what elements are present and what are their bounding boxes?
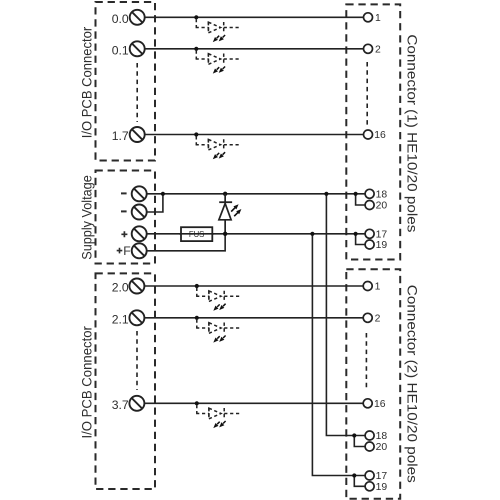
minus rail wire	[147, 193, 366, 195]
Connector (1) box (top right)	[346, 4, 400, 259]
I/O PCB Connector box (bottom left)	[96, 273, 156, 489]
I/O PCB Connector box (top left)	[96, 2, 156, 161]
vertical wire minus rail to connector 2 pin 18	[326, 194, 365, 436]
label plus F	[117, 248, 123, 254]
svg-text:I/O PCB Connector: I/O PCB Connector	[80, 326, 95, 439]
continuation dashes left box A	[136, 63, 138, 122]
plus rail wire	[147, 233, 366, 235]
svg-text:3.7: 3.7	[112, 398, 129, 412]
svg-text:2.0: 2.0	[112, 281, 129, 295]
svg-text:19: 19	[376, 482, 388, 493]
connector 2 pin 16	[363, 399, 372, 408]
connector 1 pin 16	[364, 130, 373, 139]
svg-text:2: 2	[375, 314, 381, 325]
svg-text:16: 16	[374, 130, 386, 141]
wire 1.7 to pin 16	[145, 134, 364, 136]
svg-text:20: 20	[376, 201, 388, 212]
continuation dashes right box 1	[366, 62, 368, 127]
junction on minus rail	[324, 192, 328, 196]
wire 2.1 to c2 pin 2	[145, 317, 364, 319]
connector 1 pin 19	[365, 240, 374, 249]
junction on plus rail	[310, 232, 314, 236]
terminal 2.1	[129, 310, 144, 325]
LED indicator for 2.0	[195, 284, 242, 311]
continuation dashes left box C	[136, 331, 138, 390]
label minus 1	[121, 192, 127, 194]
svg-text:2: 2	[375, 45, 381, 56]
junction minus link	[161, 192, 165, 196]
connector 1 pin 18	[365, 189, 374, 198]
svg-text:I/O PCB Connector: I/O PCB Connector	[80, 26, 95, 138]
fuse FUS	[179, 227, 214, 241]
connector 1 pin 20 elbow wire	[356, 194, 366, 205]
svg-text:19: 19	[376, 240, 388, 251]
svg-text:1: 1	[375, 282, 381, 293]
wire 0.1 to pin 2	[145, 48, 364, 50]
junction pin 17	[354, 232, 358, 236]
LED indicator for 0.0	[194, 15, 241, 42]
connector 2 pin 18	[365, 431, 374, 440]
svg-text:1.7: 1.7	[112, 129, 129, 143]
connector 1 pin 19 elbow wire	[356, 234, 366, 245]
svg-text:17: 17	[376, 230, 388, 241]
terminal minus 1	[132, 186, 147, 201]
svg-text:2.1: 2.1	[112, 312, 129, 326]
Supply Voltage box	[96, 171, 156, 264]
vertical wire plus rail to connector 2 pin 17	[312, 234, 365, 476]
minus 2 stub wire	[147, 194, 163, 212]
svg-text:16: 16	[374, 399, 386, 410]
svg-text:Connector (2) HE10/20 poles: Connector (2) HE10/20 poles	[404, 285, 420, 483]
LED indicator for 3.7	[195, 401, 242, 428]
plus F wire	[147, 234, 226, 251]
svg-text:Supply Voltage: Supply Voltage	[80, 175, 95, 260]
connector 1 pin 20	[365, 201, 374, 210]
continuation dashes right box 2	[365, 333, 367, 391]
wire 3.7 to c2 pin 16	[145, 402, 364, 404]
LED D1 (supply indicator)	[219, 192, 242, 236]
svg-text:Connector (1) HE10/20 poles: Connector (1) HE10/20 poles	[404, 34, 420, 232]
connector 2 pin 1	[363, 282, 372, 291]
connector 2 pin 17	[365, 471, 374, 480]
connector 1 pin 17	[365, 229, 374, 238]
connector 2 pin 20	[365, 442, 374, 451]
svg-text:20: 20	[376, 442, 388, 453]
terminal 3.7	[129, 396, 144, 411]
junction c2 pin 18	[352, 433, 356, 437]
label plus	[121, 231, 127, 237]
terminal 1.7	[130, 127, 145, 142]
svg-text:F: F	[123, 244, 130, 258]
svg-text:18: 18	[376, 190, 388, 201]
connector 2 pin 20 elbow wire	[354, 436, 365, 447]
terminal plus F	[132, 243, 147, 258]
connector 1 pin 1	[364, 13, 373, 22]
terminal 0.1	[130, 41, 145, 56]
svg-text:18: 18	[376, 431, 388, 442]
connector 1 pin 2	[364, 44, 373, 53]
wire 2.0 to c2 pin 1	[145, 285, 364, 287]
terminal 0.0	[130, 10, 145, 25]
label minus 2	[121, 210, 127, 212]
Connector (2) box (bottom right)	[346, 269, 400, 498]
LED indicator for 1.7	[194, 132, 241, 159]
connector 2 pin 19	[365, 482, 374, 491]
svg-text:17: 17	[376, 471, 388, 482]
wire 0.0 to pin 1	[145, 16, 364, 18]
svg-text:1: 1	[375, 13, 381, 24]
junction c2 pin 17	[352, 473, 356, 477]
connector 2 pin 2	[363, 313, 372, 322]
connector 2 pin 19 elbow wire	[354, 476, 365, 487]
LED indicator for 2.1	[195, 316, 242, 343]
terminal plus	[132, 226, 147, 241]
junction pin 18	[354, 192, 358, 196]
terminal minus 2	[132, 205, 147, 220]
svg-text:0.0: 0.0	[112, 12, 129, 26]
LED indicator for 0.1	[194, 47, 241, 74]
svg-text:0.1: 0.1	[112, 43, 129, 57]
terminal 2.0	[129, 279, 144, 294]
